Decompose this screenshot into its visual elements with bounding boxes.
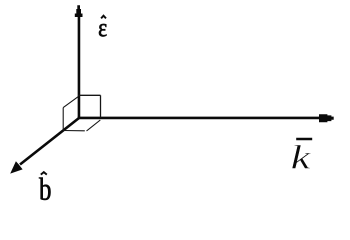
cube back top diagonal edge: [63, 97, 78, 108]
cube bottom diagonal edge: [87, 120, 101, 131]
cube front square top edge: [78, 94, 101, 96]
bar over k: [296, 138, 312, 141]
cube back vertical edge: [62, 108, 64, 131]
axis epsilon-hat (vertical arrow): [75, 5, 83, 118]
label b: [39, 178, 50, 200]
axis b-hat (diagonal arrow to lower-left): [10, 118, 79, 174]
cube front square right edge: [100, 95, 102, 117]
label k: [292, 145, 311, 169]
hat over b: [41, 172, 47, 175]
hat over epsilon: [101, 16, 106, 19]
axis k-bar (horizontal arrow): [78, 114, 334, 122]
cube bottom horizontal edge: [63, 130, 85, 132]
label epsilon: [99, 24, 107, 36]
